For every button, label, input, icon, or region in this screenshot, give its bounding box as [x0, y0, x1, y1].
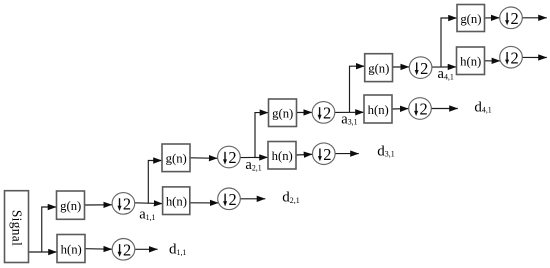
svg-text:g(n): g(n) [460, 12, 481, 26]
svg-text:g(n): g(n) [368, 62, 389, 76]
svg-text:h(n): h(n) [368, 103, 389, 117]
svg-text:g(n): g(n) [166, 152, 187, 166]
svg-text:h(n): h(n) [61, 242, 82, 256]
svg-text:h(n): h(n) [166, 195, 187, 209]
svg-text:g(n): g(n) [272, 107, 293, 121]
svg-text:h(n): h(n) [460, 55, 481, 69]
svg-text:Signal: Signal [9, 210, 24, 246]
svg-text:h(n): h(n) [272, 149, 293, 163]
svg-text:g(n): g(n) [60, 199, 81, 213]
